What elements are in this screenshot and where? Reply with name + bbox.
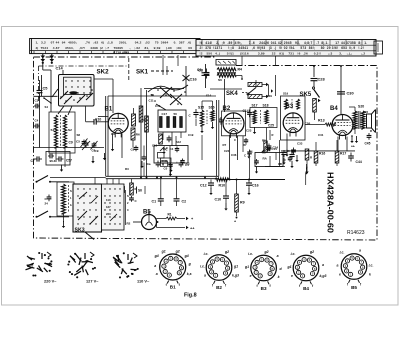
- ground B3a: [286, 150, 288, 155]
- svg-text:C25: C25: [268, 124, 274, 128]
- svg-text:C12: C12: [200, 184, 207, 188]
- svg-text:R: R: [370, 129, 372, 133]
- svg-text:a: a: [204, 274, 206, 278]
- svg-text:R3: R3: [125, 167, 129, 171]
- junction: [146, 177, 148, 179]
- oscillator padder bank C17: [158, 110, 186, 146]
- junction: [236, 179, 238, 181]
- wire: [281, 150, 355, 152]
- svg-text:C1: C1: [152, 200, 157, 204]
- svg-text:C9: C9: [69, 141, 73, 145]
- svg-text:SK3: SK3: [75, 228, 85, 234]
- svg-text:220: 220: [106, 212, 111, 216]
- svg-text:C: C: [234, 138, 236, 142]
- svg-text:6|: 6|: [101, 41, 104, 45]
- svg-text:C19: C19: [188, 133, 194, 137]
- svg-text:5!!|1: 5!!|1: [227, 52, 234, 56]
- wire: [224, 79, 226, 112]
- svg-text:e: e: [339, 273, 341, 277]
- svg-text:3!6!: 3!6!: [332, 46, 338, 50]
- capacitor C34: [268, 144, 270, 147]
- svg-text:HX428A-00-60: HX428A-00-60: [326, 172, 336, 233]
- svg-text:387: 387: [179, 41, 185, 45]
- svg-text:B2: B2: [223, 106, 231, 112]
- voltage selector contacts: [95, 178, 124, 231]
- svg-text:S14: S14: [206, 94, 212, 98]
- svg-text:R6: R6: [136, 133, 140, 137]
- svg-text:;.|,;: ;.|,;: [347, 52, 353, 56]
- svg-text:R4: R4: [238, 68, 243, 72]
- svg-text:S2: S2: [68, 128, 72, 132]
- aerial coils S1 S2: [49, 112, 75, 162]
- svg-text:127 V~: 127 V~: [86, 279, 99, 284]
- svg-text:44: 44: [341, 41, 345, 45]
- oscillator transformer S5 S6: [197, 60, 243, 83]
- svg-text:R: R: [272, 133, 274, 137]
- svg-text:295|.: 295|.: [119, 41, 127, 45]
- svg-text:C31: C31: [318, 133, 324, 137]
- svg-text:S4: S4: [45, 105, 49, 109]
- svg-text:B1: B1: [170, 285, 176, 290]
- svg-text:SK1: SK1: [136, 69, 149, 76]
- wire: [144, 88, 184, 90]
- svg-text:731: 731: [288, 52, 294, 56]
- svg-text:44: 44: [56, 41, 60, 45]
- svg-text:17: 17: [335, 41, 339, 45]
- wire: [146, 90, 148, 176]
- svg-text:i.c.: i.c.: [369, 264, 374, 268]
- svg-text:!6: !6: [297, 52, 300, 56]
- tube base diagram B1: [160, 254, 186, 280]
- svg-text:8.718.45+5.: 8.718.45+5.: [113, 51, 130, 55]
- mains switch SK3a: [36, 181, 38, 183]
- svg-text:0;.9: 0;.9: [349, 46, 355, 50]
- wire B5 output: [156, 222, 158, 228]
- wire: [237, 136, 239, 160]
- tube base diagram B5: [341, 254, 367, 280]
- wire: [169, 146, 171, 176]
- svg-text:91|: 91|: [279, 52, 284, 56]
- wire: [268, 85, 270, 97]
- svg-text:a: a: [337, 264, 339, 268]
- wire: [336, 140, 338, 151]
- svg-text:a: a: [154, 264, 156, 268]
- svg-text:C6: C6: [197, 68, 202, 72]
- mains adapter 110V: [115, 260, 119, 265]
- svg-text:9!|93: 9!|93: [257, 46, 265, 50]
- svg-text:.26: .26: [303, 52, 308, 56]
- svg-text:g1: g1: [244, 265, 249, 269]
- AF takeoff parts: [141, 161, 143, 166]
- svg-text:573: 573: [300, 46, 306, 50]
- svg-text:++: ++: [190, 227, 195, 231]
- svg-text:k,s: k,s: [187, 272, 192, 276]
- svg-text:g2: g2: [224, 250, 229, 254]
- svg-text:R16: R16: [319, 152, 325, 156]
- screen partition: [128, 58, 130, 80]
- wire: [39, 96, 41, 148]
- oscillator wafer contacts: [148, 85, 188, 110]
- resistor R4b: [145, 116, 149, 132]
- svg-text:;62: ;62: [93, 41, 98, 45]
- svg-text:S17: S17: [252, 104, 258, 108]
- wire: [313, 66, 315, 78]
- svg-text:C4: C4: [35, 119, 39, 123]
- svg-text:15: 15: [278, 162, 282, 166]
- svg-text:;;3: ;;3: [328, 52, 332, 56]
- svg-text:8;: 8;: [358, 41, 361, 45]
- svg-text:86!;: 86!;: [309, 46, 315, 50]
- svg-text:06: 06: [188, 46, 192, 50]
- svg-text:a: a: [156, 272, 158, 276]
- svg-text:e: e: [250, 274, 252, 278]
- svg-text:.|: .|: [274, 46, 276, 50]
- wire: [210, 88, 242, 90]
- oscillator grid parts: [159, 134, 163, 144]
- tube B3 box: [281, 96, 306, 140]
- tube base diagram B3: [251, 255, 277, 281]
- wire: [279, 140, 281, 167]
- svg-text:4805;: 4805;: [68, 41, 77, 45]
- svg-text:C11: C11: [149, 99, 155, 103]
- wire: [50, 177, 106, 179]
- junction: [156, 177, 158, 179]
- svg-text:7524: 7524: [41, 46, 49, 50]
- svg-text:C44: C44: [356, 160, 362, 164]
- svg-text:B3: B3: [261, 286, 267, 291]
- wire: [340, 66, 342, 115]
- svg-text:C: C: [284, 158, 286, 162]
- svg-text:C28: C28: [318, 77, 326, 82]
- resistor R7: [132, 114, 136, 126]
- svg-text:3,: 3,: [339, 52, 342, 56]
- svg-text:378: 378: [205, 46, 211, 50]
- top antenna/earth connection strip: [30, 39, 383, 57]
- chassis boundary (dash-dot frame): [34, 56, 217, 58]
- svg-text:g2: g2: [264, 250, 269, 254]
- svg-text:S: S: [127, 194, 129, 198]
- junction: [176, 177, 178, 179]
- svg-text:C3: C3: [35, 99, 39, 103]
- svg-text:C18: C18: [152, 144, 158, 148]
- svg-text:C45: C45: [365, 142, 371, 146]
- resistor R12: [313, 99, 317, 113]
- wire: [34, 147, 105, 149]
- svg-text:S15: S15: [198, 106, 204, 110]
- svg-text:|5116: |5116: [240, 52, 249, 56]
- svg-text:24426: 24426: [259, 41, 269, 45]
- svg-text:S18: S18: [263, 104, 269, 108]
- mains adapter 127V: [83, 260, 89, 267]
- IF transformer S17 S18: [250, 104, 277, 135]
- IF transformer S15 S16: [198, 101, 223, 133]
- mains switch SK3b: [36, 216, 38, 218]
- svg-text:k,g3: k,g3: [232, 274, 239, 278]
- svg-text:B2: B2: [216, 285, 222, 290]
- mains dropper S21: [57, 182, 74, 228]
- wire: [255, 80, 257, 88]
- svg-text:C57: C57: [66, 159, 72, 163]
- svg-text:4|: 4|: [36, 46, 39, 50]
- wire: [346, 137, 348, 151]
- svg-text:|.90: |.90: [166, 46, 172, 50]
- svg-text:C30: C30: [347, 91, 354, 96]
- resistor R8: [130, 183, 134, 195]
- svg-text:;,2: ;,2: [361, 52, 365, 56]
- IF coils above B3: [285, 99, 288, 109]
- svg-text:29: 29: [327, 46, 331, 50]
- svg-text:.7: .7: [316, 41, 319, 45]
- svg-text:S1: S1: [51, 128, 55, 132]
- capacitor C41: [283, 150, 285, 153]
- wire: [266, 128, 268, 146]
- svg-text:42: 42: [278, 41, 282, 45]
- svg-text:3664: 3664: [161, 41, 169, 45]
- svg-text:110: 110: [106, 198, 111, 202]
- svg-text:8|,1.: 8|,1.: [321, 41, 328, 45]
- junction: [248, 179, 250, 181]
- svg-text:g2: g2: [175, 250, 180, 254]
- svg-text:96.3: 96.3: [50, 159, 56, 163]
- svg-text:B5: B5: [351, 285, 357, 290]
- wire: [201, 135, 203, 160]
- junction: [229, 179, 231, 181]
- svg-text:4!9;,: 4!9;,: [235, 41, 243, 45]
- wire: [112, 79, 114, 113]
- svg-text:i.c.: i.c.: [200, 265, 205, 269]
- svg-text:S8: S8: [77, 133, 81, 137]
- svg-text:22: 22: [272, 52, 276, 56]
- svg-text:!6: !6: [200, 41, 203, 45]
- svg-text:;39;: ;39;: [176, 46, 182, 50]
- svg-text:g4: g4: [154, 254, 159, 258]
- mains adapter 220V: [27, 266, 34, 268]
- wave trap C7: [31, 152, 73, 172]
- svg-text:C6: C6: [111, 132, 115, 136]
- svg-text:C9: C9: [95, 149, 99, 153]
- svg-text:C2: C2: [182, 200, 187, 204]
- svg-text:a: a: [322, 263, 324, 267]
- svg-text:37358: 37358: [346, 41, 356, 45]
- svg-text:C0: C0: [164, 167, 168, 171]
- svg-text:04,2: 04,2: [135, 41, 142, 45]
- svg-text:C23: C23: [246, 129, 252, 133]
- shield enclosure: [105, 96, 107, 176]
- svg-text:SK2: SK2: [97, 69, 110, 76]
- svg-text:4;8;7: 4;8;7: [304, 41, 312, 45]
- wire: [286, 134, 288, 151]
- wire: [185, 88, 187, 96]
- svg-text:81,: 81,: [145, 46, 150, 50]
- ground: [104, 153, 106, 158]
- svg-text:3,2: 3,2: [41, 41, 46, 45]
- wire: [55, 157, 57, 162]
- svg-text:C5: C5: [76, 140, 80, 144]
- svg-text:;9: ;9: [222, 41, 225, 45]
- svg-text:Dia: Dia: [146, 162, 151, 166]
- svg-text:.6|: .6|: [187, 41, 191, 45]
- svg-text:S23: S23: [363, 110, 368, 114]
- wire: [315, 142, 317, 151]
- svg-text:2!: 2!: [200, 46, 203, 50]
- svg-text:R10: R10: [219, 184, 226, 188]
- svg-text:!;;8: !;;8: [228, 46, 234, 50]
- svg-text:C16: C16: [190, 77, 198, 82]
- svg-text:R7: R7: [223, 143, 227, 147]
- svg-text:C33: C33: [297, 142, 303, 146]
- svg-text:!0: !0: [279, 46, 282, 50]
- svg-text:;52: ;52: [145, 41, 150, 45]
- capacitor C42: [291, 152, 293, 155]
- cathode arrows B4: [351, 135, 353, 137]
- svg-text:;.62: ;.62: [134, 46, 140, 50]
- svg-text:e: e: [291, 274, 293, 278]
- svg-text:R2: R2: [163, 147, 167, 151]
- svg-text:R17: R17: [340, 152, 346, 156]
- svg-text:3,89: 3,89: [258, 52, 265, 56]
- tone network: [118, 187, 125, 193]
- svg-text:B4: B4: [330, 106, 338, 112]
- svg-text:S: S: [70, 189, 72, 193]
- svg-text:R13: R13: [318, 119, 325, 123]
- grid wire: [98, 116, 108, 118]
- wire: [85, 106, 87, 122]
- svg-text:C22: C22: [224, 149, 230, 153]
- svg-text:i.c.: i.c.: [291, 252, 296, 256]
- svg-text:4..|: 4..|: [215, 52, 220, 56]
- svg-text:127: 127: [106, 205, 111, 209]
- svg-text:S16: S16: [209, 106, 215, 110]
- output transformer S20: [349, 105, 365, 135]
- svg-text:C15: C15: [155, 104, 161, 108]
- svg-text:++: ++: [351, 145, 355, 149]
- svg-text:07: 07: [51, 41, 55, 45]
- svg-text:g1: g1: [161, 250, 166, 254]
- svg-text:70895: 70895: [114, 46, 124, 50]
- tube base diagram B4: [293, 255, 319, 281]
- svg-text:E5M: E5M: [162, 159, 168, 163]
- svg-text:B3: B3: [286, 104, 294, 110]
- rectifier B5: [127, 210, 159, 230]
- svg-text:B1: B1: [105, 107, 113, 113]
- screen partition 2: [39, 65, 129, 67]
- svg-text:R9: R9: [240, 201, 245, 205]
- svg-text:220 V~: 220 V~: [44, 279, 57, 284]
- svg-text:02: 02: [284, 46, 288, 50]
- svg-text:i.c.: i.c.: [248, 252, 253, 256]
- svg-text:9;39: 9;39: [154, 46, 161, 50]
- svg-text:|2: |2: [100, 46, 103, 50]
- wire: [34, 95, 58, 97]
- svg-text:93,: 93,: [295, 41, 300, 45]
- resistor R15: [305, 149, 309, 160]
- wire: [265, 166, 285, 168]
- svg-text:g1: g1: [286, 265, 291, 269]
- svg-text:.,: .,: [129, 46, 131, 50]
- svg-text:,6: ,6: [252, 46, 255, 50]
- svg-text:!1371: !1371: [213, 46, 222, 50]
- svg-text:a: a: [359, 249, 361, 253]
- svg-text:R2: R2: [127, 222, 131, 226]
- svg-text:C29: C29: [267, 94, 273, 98]
- svg-text:110 V~: 110 V~: [137, 279, 150, 284]
- svg-text:34541: 34541: [238, 46, 248, 50]
- svg-text:i.c.: i.c.: [204, 252, 209, 256]
- svg-text:4.87: 4.87: [53, 46, 60, 50]
- svg-text:C5: C5: [43, 86, 49, 91]
- svg-text:2945: 2945: [284, 41, 292, 45]
- svg-text:0,3!!: 0,3!!: [314, 52, 321, 56]
- wire: [229, 135, 231, 180]
- svg-text:1.: 1.: [364, 41, 367, 45]
- svg-text:S9: S9: [151, 93, 155, 97]
- resistor R2b: [139, 106, 143, 122]
- voltage selector SK3: [73, 184, 102, 240]
- svg-text:C16: C16: [252, 184, 259, 188]
- svg-text:g4: g4: [184, 254, 189, 258]
- wire: [337, 137, 339, 151]
- svg-text:+: +: [234, 220, 236, 224]
- resistor R5: [248, 83, 262, 87]
- svg-text:35: 35: [287, 149, 291, 153]
- svg-text:R1: R1: [168, 213, 172, 217]
- AF coupling cluster: [131, 146, 189, 177]
- svg-text:!54.: !54.: [289, 46, 295, 50]
- svg-text:94: 94: [62, 41, 66, 45]
- svg-text:653: 653: [341, 46, 347, 50]
- svg-text:,07!: ,07!: [79, 46, 85, 50]
- svg-text:C26: C26: [305, 122, 311, 126]
- svg-text:550: 550: [207, 52, 213, 56]
- svg-text:0.: 0.: [174, 41, 177, 45]
- svg-text:;.7: ;.7: [105, 46, 109, 50]
- band switch SK2: [52, 69, 109, 116]
- wire: [306, 164, 308, 169]
- svg-text:B4: B4: [303, 286, 309, 291]
- svg-text:C10: C10: [215, 198, 222, 202]
- junction: [140, 177, 142, 179]
- junction: [204, 177, 206, 179]
- HT bus wire: [219, 179, 285, 181]
- svg-text:S12: S12: [176, 140, 181, 144]
- svg-text:7..6: 7..6: [249, 41, 255, 45]
- svg-text:a: a: [277, 254, 279, 258]
- svg-text:SK4: SK4: [226, 91, 238, 97]
- svg-text:C14: C14: [272, 147, 278, 151]
- capacitor C3: [34, 105, 36, 107]
- svg-text:3534,: 3534,: [65, 46, 74, 50]
- svg-text:80: 80: [321, 46, 325, 50]
- svg-text:,76: ,76: [85, 41, 90, 45]
- oscillator switch SK1: [136, 66, 173, 76]
- svg-text:R14623: R14623: [347, 230, 365, 236]
- svg-text:R5: R5: [262, 151, 266, 155]
- svg-text:4398: 4398: [90, 46, 98, 50]
- svg-text:g1: g1: [233, 265, 238, 269]
- svg-text:;1,8: ;1,8: [107, 41, 113, 45]
- resistor R3: [248, 95, 262, 99]
- svg-text:C17: C17: [162, 112, 168, 116]
- svg-text:1,: 1,: [36, 41, 39, 45]
- svg-text:|3: |3: [269, 46, 272, 50]
- AVC network: [247, 139, 283, 174]
- junction: [160, 177, 162, 179]
- wire: [140, 88, 142, 176]
- svg-text:C1: C1: [186, 162, 190, 166]
- tube B2 box: [222, 111, 246, 136]
- svg-text:S6: S6: [138, 189, 142, 193]
- tube base diagram B2: [206, 255, 232, 281]
